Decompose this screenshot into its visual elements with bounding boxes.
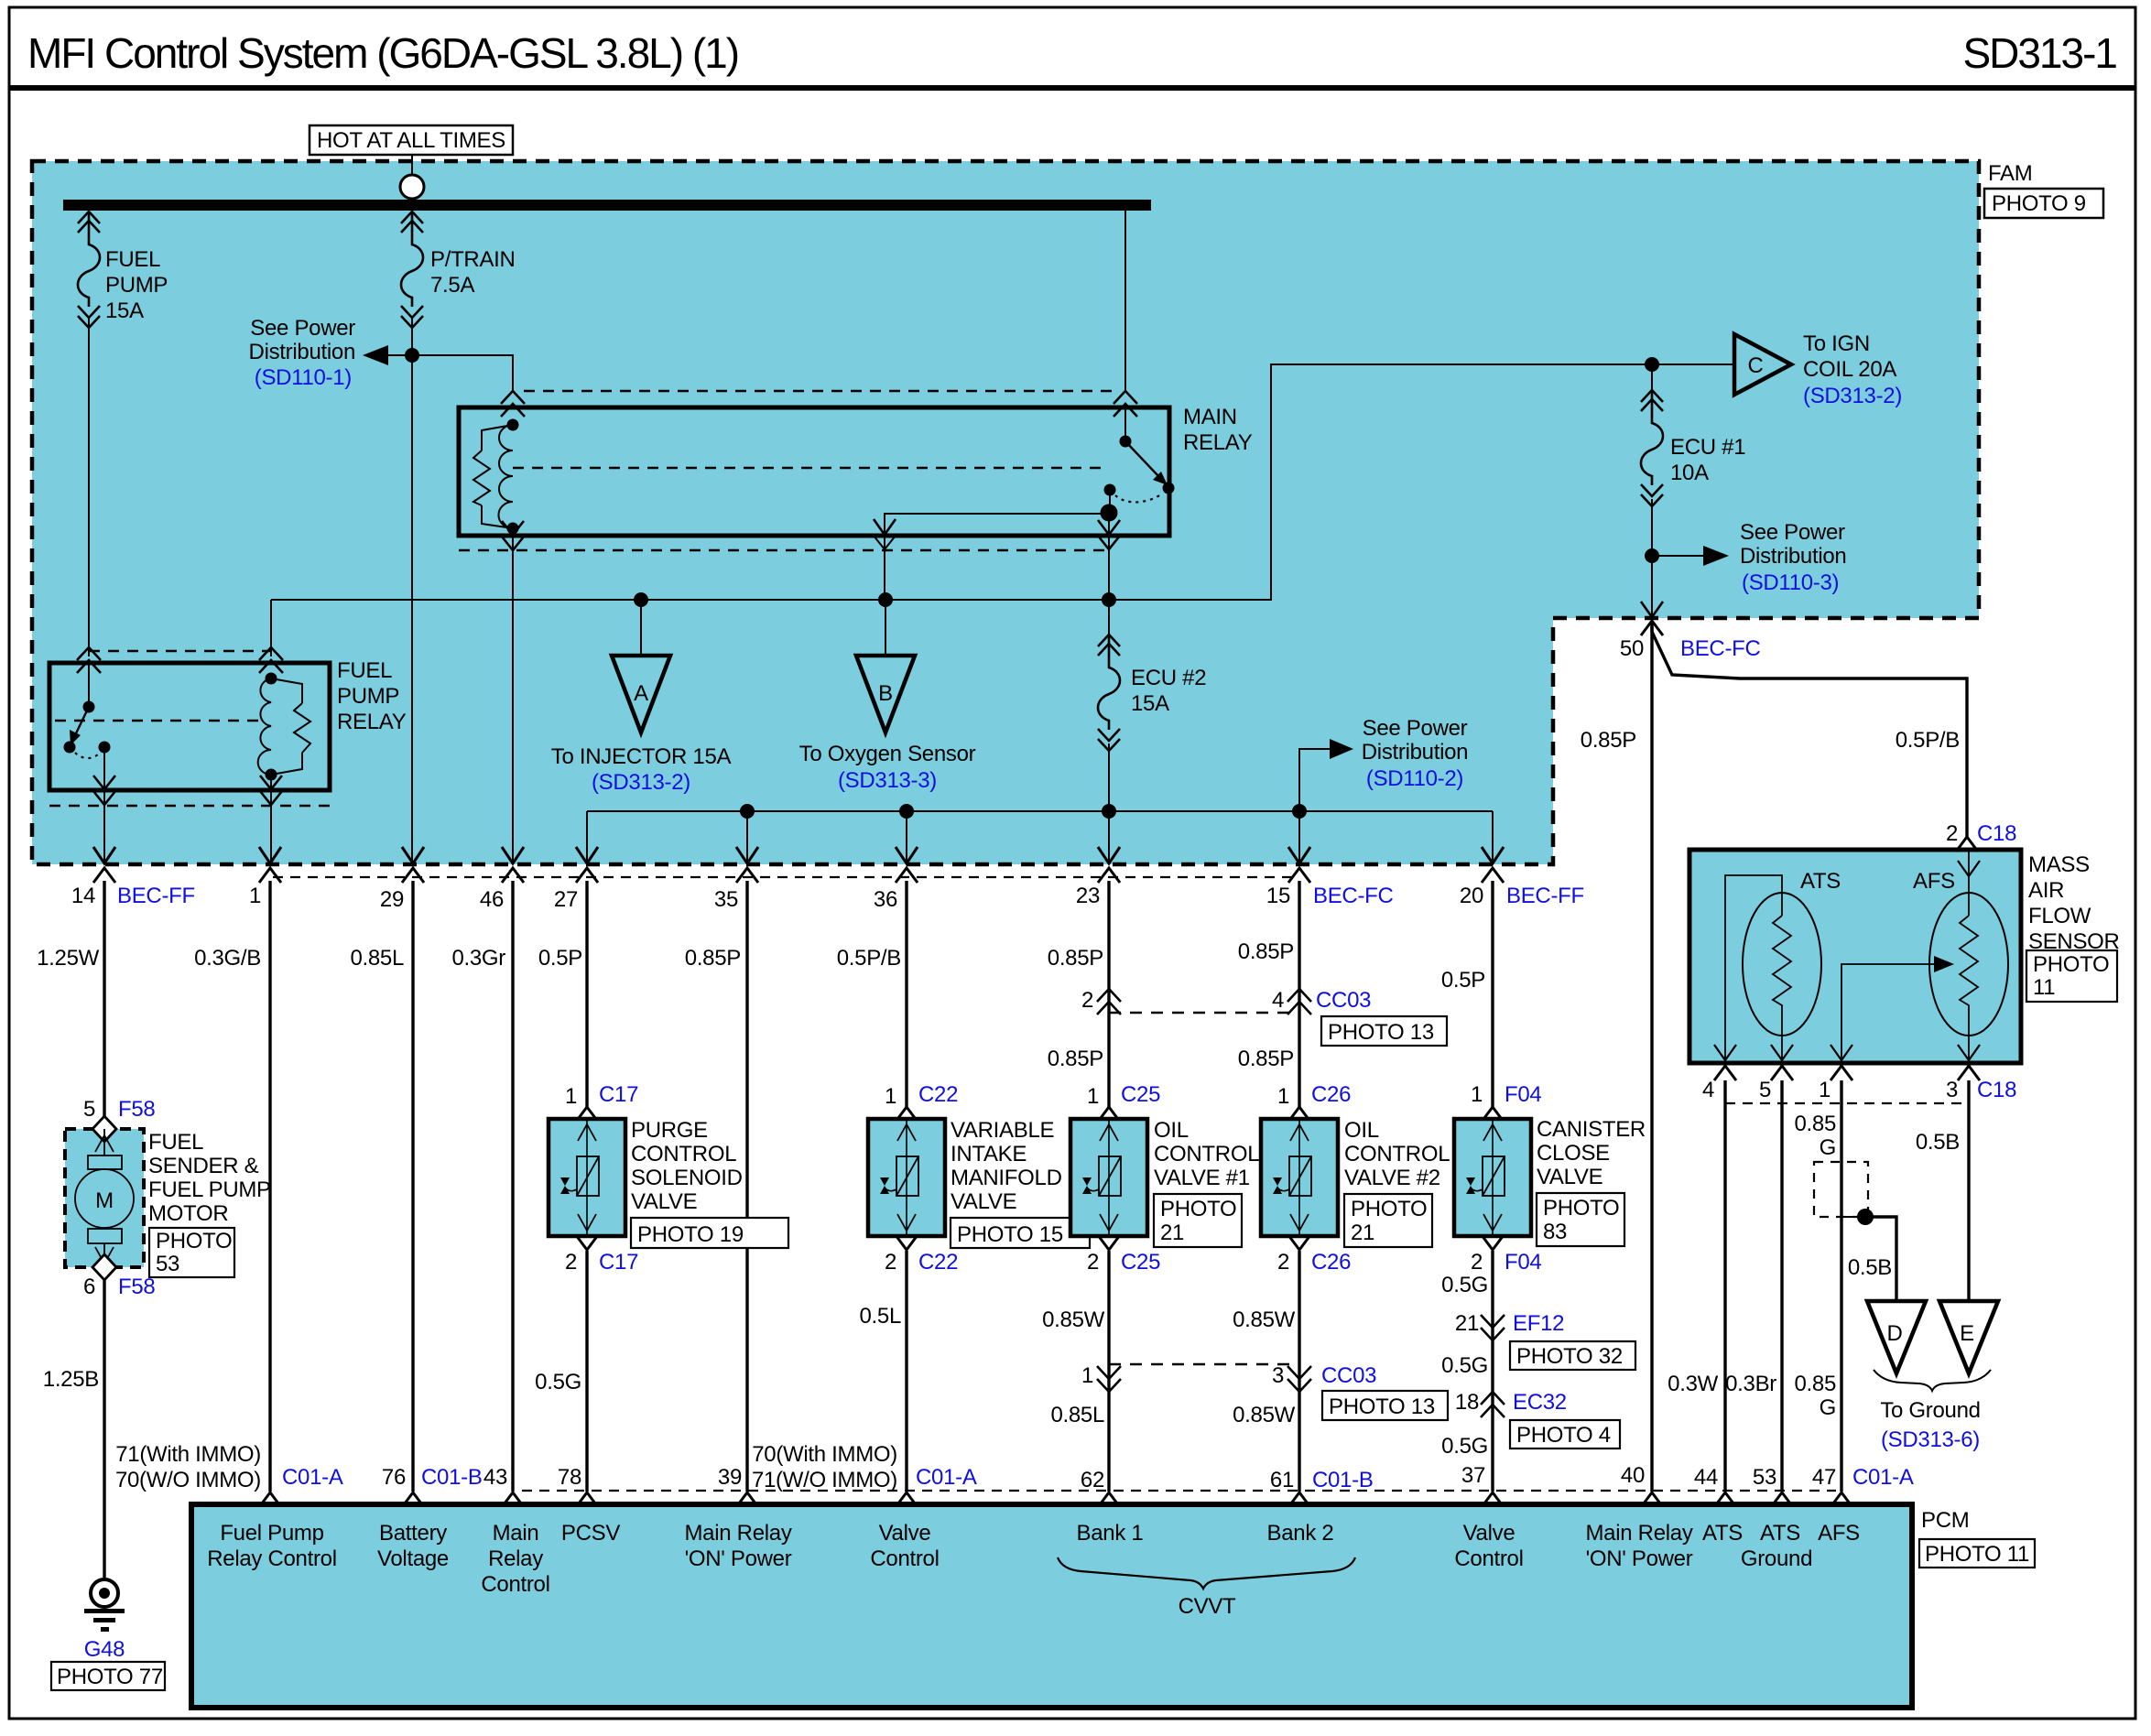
svg-text:PHOTO: PHOTO (2033, 952, 2109, 977)
svg-text:47: 47 (1812, 1465, 1836, 1490)
svg-text:0.5L: 0.5L (859, 1304, 901, 1329)
wire splice to D triangle (1841, 1216, 1865, 1218)
svg-text:11: 11 (2033, 975, 2055, 1000)
svg-text:'ON' Power: 'ON' Power (1586, 1546, 1693, 1571)
svg-text:50: 50 (1620, 636, 1644, 661)
svg-text:PHOTO: PHOTO (1160, 1197, 1236, 1221)
svg-text:MFI Control System (G6DA-GSL 3: MFI Control System (G6DA-GSL 3.8L) (1) (27, 29, 738, 77)
MAF bottom connector tents (1714, 1066, 1736, 1080)
svg-text:CVVT: CVVT (1179, 1594, 1236, 1619)
svg-text:2: 2 (1946, 821, 1958, 846)
svg-text:PHOTO: PHOTO (156, 1229, 232, 1253)
wire from node to main relay coil (412, 355, 513, 391)
svg-text:Bank 1: Bank 1 (1077, 1521, 1144, 1546)
fuel sender connector diamond bottom (92, 1254, 116, 1280)
svg-text:0.3Gr: 0.3Gr (451, 946, 505, 971)
svg-text:53: 53 (156, 1252, 179, 1276)
svg-text:0.85W: 0.85W (1233, 1403, 1296, 1427)
vertical wire 20 to canister valve (1491, 881, 1494, 1107)
svg-text:C01-A: C01-A (916, 1465, 977, 1490)
PCM box (191, 1504, 1912, 1708)
svg-text:62: 62 (1081, 1468, 1104, 1492)
wire distribution at y=886 (587, 810, 1493, 812)
svg-text:CC03: CC03 (1316, 988, 1371, 1013)
svg-text:14: 14 (71, 884, 95, 908)
svg-text:F58: F58 (118, 1097, 155, 1122)
svg-text:CANISTER: CANISTER (1537, 1117, 1646, 1142)
PCM pin tents (259, 1492, 281, 1507)
svg-text:0.85: 0.85 (1794, 1372, 1836, 1396)
svg-text:C26: C26 (1311, 1082, 1351, 1107)
svg-text:PHOTO 19: PHOTO 19 (637, 1222, 744, 1247)
svg-text:37: 37 (1461, 1463, 1485, 1488)
svg-text:40: 40 (1621, 1463, 1645, 1488)
svg-text:0.85: 0.85 (1794, 1112, 1836, 1136)
svg-text:PUMP: PUMP (337, 684, 399, 709)
svg-text:C25: C25 (1121, 1250, 1160, 1275)
svg-text:C26: C26 (1311, 1250, 1351, 1275)
svg-text:0.85L: 0.85L (350, 946, 404, 971)
svg-text:27: 27 (554, 887, 578, 912)
svg-text:0.85W: 0.85W (1042, 1307, 1105, 1332)
fuse ECU#2 15A (1108, 600, 1110, 811)
svg-text:0.85P: 0.85P (1048, 1047, 1103, 1071)
svg-text:C01-A: C01-A (282, 1465, 343, 1490)
wire fuel pump fuse drop (88, 211, 90, 656)
wire PCSV to PCM 78 (585, 1251, 588, 1492)
svg-text:A: A (634, 681, 648, 706)
fp relay dashed linkage inside (55, 720, 266, 722)
svg-text:Main Relay: Main Relay (1585, 1521, 1692, 1546)
svg-text:D: D (1886, 1321, 1902, 1346)
svg-text:21: 21 (1455, 1311, 1479, 1336)
wire p/train fuse drop (411, 211, 413, 864)
node on bus (white circle) (400, 175, 424, 199)
svg-text:4: 4 (1272, 988, 1284, 1013)
svg-text:78: 78 (558, 1465, 581, 1490)
MAF output wires (1723, 1080, 1726, 1492)
svg-text:18: 18 (1455, 1390, 1479, 1415)
fuse FUEL PUMP 15A (78, 212, 100, 328)
svg-text:Main Relay: Main Relay (684, 1521, 791, 1546)
svg-text:RELAY: RELAY (337, 710, 407, 734)
main relay box (459, 407, 1169, 536)
svg-text:15A: 15A (1131, 691, 1169, 716)
fuel pump relay dashed linkage above (89, 650, 270, 652)
svg-text:0.85P: 0.85P (1581, 728, 1636, 753)
svg-text:M: M (95, 1188, 114, 1213)
svg-text:MOTOR: MOTOR (148, 1201, 228, 1226)
svg-text:COIL 20A: COIL 20A (1803, 357, 1896, 382)
svg-text:1: 1 (885, 1084, 896, 1109)
exit drops to boundary (587, 811, 1493, 864)
svg-text:0.85P: 0.85P (685, 946, 741, 971)
svg-text:C18: C18 (1977, 821, 2016, 846)
wire from label to bus (411, 155, 413, 177)
svg-text:(SD313-6): (SD313-6) (1881, 1427, 1980, 1452)
dashed splice box (1814, 1162, 1868, 1217)
svg-text:VALVE: VALVE (631, 1189, 697, 1214)
svg-text:To INJECTOR 15A: To INJECTOR 15A (551, 744, 732, 769)
svg-text:Relay: Relay (488, 1546, 543, 1571)
svg-text:2: 2 (885, 1250, 896, 1275)
svg-text:PHOTO: PHOTO (1351, 1197, 1427, 1221)
svg-text:See Power: See Power (250, 316, 355, 341)
svg-text:See Power: See Power (1363, 716, 1468, 741)
battery bus bar (63, 200, 1151, 211)
fp relay coil (266, 673, 277, 685)
svg-text:1: 1 (1277, 1084, 1289, 1109)
svg-text:PCM: PCM (1921, 1508, 1969, 1533)
svg-text:2: 2 (1471, 1250, 1483, 1275)
motor M (75, 1169, 134, 1228)
node SD110-3 (1645, 548, 1659, 563)
svg-text:2: 2 (565, 1250, 577, 1275)
main relay resistor (482, 425, 513, 528)
pin 2 C25 label (1098, 1235, 1120, 1250)
triangle C to IGN coil (1652, 363, 1734, 365)
svg-text:1.25B: 1.25B (43, 1367, 99, 1392)
svg-text:C22: C22 (918, 1250, 958, 1275)
svg-text:7.5A: 7.5A (430, 273, 474, 298)
svg-text:23: 23 (1076, 884, 1100, 908)
main relay coil (507, 419, 519, 431)
svg-text:ECU #1: ECU #1 (1670, 435, 1745, 460)
svg-text:C01-B: C01-B (421, 1465, 483, 1490)
svg-text:FLOW: FLOW (2028, 904, 2091, 928)
svg-text:PHOTO 15: PHOTO 15 (957, 1222, 1063, 1247)
main relay switch (1114, 391, 1137, 417)
wire to B triangle (885, 600, 886, 656)
svg-text:0.5G: 0.5G (535, 1370, 581, 1394)
pin 2 C18 label (1956, 837, 1978, 852)
svg-text:ATS: ATS (1702, 1521, 1743, 1546)
svg-text:FAM: FAM (1988, 161, 2032, 186)
svg-text:BEC-FC: BEC-FC (1680, 636, 1761, 661)
svg-text:VALVE: VALVE (1537, 1165, 1602, 1189)
pin 2 C17 label (576, 1235, 598, 1250)
svg-text:21: 21 (1160, 1221, 1184, 1245)
svg-text:Main: Main (493, 1521, 539, 1546)
svg-text:EF12: EF12 (1513, 1311, 1564, 1336)
svg-text:C17: C17 (599, 1250, 638, 1275)
svg-text:VARIABLE: VARIABLE (951, 1118, 1054, 1143)
svg-text:2: 2 (1081, 988, 1093, 1013)
brace under D and E (1874, 1370, 1991, 1391)
variable intake manifold valve (868, 1119, 945, 1236)
svg-text:1: 1 (1471, 1082, 1483, 1107)
svg-text:G48: G48 (84, 1637, 125, 1662)
svg-text:MANIFOLD: MANIFOLD (951, 1166, 1062, 1190)
arrow See Power Distribution SD110-3 (1652, 555, 1703, 557)
svg-text:See Power: See Power (1740, 520, 1845, 545)
svg-text:F58: F58 (118, 1275, 155, 1299)
vertical wire 23 to OCV1 (1107, 881, 1110, 1107)
svg-text:29: 29 (380, 887, 404, 912)
svg-text:C25: C25 (1121, 1082, 1160, 1107)
svg-text:0.5G: 0.5G (1441, 1434, 1488, 1459)
svg-text:CC03: CC03 (1321, 1363, 1376, 1388)
svg-text:Ground: Ground (1741, 1546, 1812, 1571)
svg-text:76: 76 (382, 1465, 406, 1490)
svg-text:OIL: OIL (1154, 1118, 1189, 1143)
svg-text:OIL: OIL (1344, 1118, 1379, 1143)
fp relay coil pin (259, 647, 283, 673)
svg-text:0.5B: 0.5B (1916, 1130, 1960, 1155)
vertical wire 29 to PCM (411, 881, 414, 1492)
fuel sender & fuel pump motor dashed box (65, 1129, 144, 1267)
purge control solenoid valve (549, 1119, 625, 1236)
svg-text:2: 2 (1277, 1250, 1289, 1275)
svg-text:BEC-FF: BEC-FF (117, 884, 195, 908)
connector row chevrons at cyan exit (93, 847, 115, 863)
fp relay coil to pin 1 (270, 775, 272, 864)
junction node SD110-1 (405, 348, 419, 363)
svg-text:Valve: Valve (879, 1521, 931, 1546)
svg-text:(SD110-3): (SD110-3) (1742, 570, 1839, 595)
svg-text:PHOTO 9: PHOTO 9 (1992, 191, 2086, 216)
svg-text:3: 3 (1946, 1078, 1958, 1102)
ground G48 (91, 1579, 118, 1607)
svg-text:ECU #2: ECU #2 (1131, 666, 1206, 690)
main relay pin exits (1108, 513, 1110, 600)
svg-text:36: 36 (874, 887, 897, 912)
main relay switch output node (1109, 490, 1111, 513)
svg-text:PUMP: PUMP (105, 273, 168, 298)
svg-text:(SD313-2): (SD313-2) (592, 770, 690, 795)
svg-text:35: 35 (714, 887, 738, 912)
svg-text:FUEL: FUEL (148, 1130, 203, 1155)
vertical wire 1 to PCM (268, 881, 271, 1492)
svg-text:Control: Control (481, 1572, 549, 1597)
svg-text:1: 1 (249, 884, 261, 908)
svg-text:PHOTO 32: PHOTO 32 (1516, 1344, 1623, 1369)
svg-text:G: G (1820, 1395, 1836, 1420)
mass air flow sensor box (1689, 850, 2021, 1063)
svg-text:70(With IMMO): 70(With IMMO) (752, 1442, 897, 1467)
svg-text:C22: C22 (918, 1082, 958, 1107)
node ECU2 feed (1102, 592, 1116, 607)
svg-text:83: 83 (1543, 1220, 1567, 1244)
svg-text:(SD313-3): (SD313-3) (838, 768, 937, 793)
motor brushes (88, 1156, 122, 1169)
arrow to See Power Distribution SD110-1 (388, 354, 412, 356)
pin 2 C22 label (896, 1235, 918, 1250)
svg-text:53: 53 (1753, 1465, 1776, 1490)
vertical wire 14 to fuel sender (103, 881, 105, 1118)
svg-text:BEC-FF: BEC-FF (1506, 884, 1584, 908)
svg-text:0.3G/B: 0.3G/B (194, 946, 261, 971)
svg-text:PHOTO: PHOTO (1543, 1196, 1619, 1221)
svg-text:21: 21 (1351, 1221, 1374, 1245)
fp relay resistor (271, 678, 302, 775)
node pin35 (740, 804, 755, 819)
svg-text:39: 39 (718, 1465, 742, 1490)
svg-text:SOLENOID: SOLENOID (631, 1166, 743, 1190)
svg-text:VALVE #2: VALVE #2 (1344, 1166, 1440, 1190)
node IGN feed (1645, 357, 1659, 372)
connector CC03 lower jumper (1109, 1363, 1299, 1365)
svg-text:70(W/O IMMO): 70(W/O IMMO) (115, 1468, 261, 1492)
svg-text:1: 1 (1819, 1078, 1831, 1102)
arrow See Power Distribution SD110-2 (1299, 749, 1335, 811)
svg-text:44: 44 (1694, 1465, 1718, 1490)
svg-text:F04: F04 (1505, 1082, 1541, 1107)
svg-text:Control: Control (870, 1546, 939, 1571)
svg-text:E: E (1960, 1321, 1974, 1346)
fuse P/TRAIN 7.5A (401, 212, 423, 328)
svg-text:EC32: EC32 (1513, 1390, 1567, 1415)
svg-text:1: 1 (1087, 1084, 1099, 1109)
wire 0.85P down to PCM 40 (1650, 623, 1653, 1492)
pin 2 C26 label (1288, 1235, 1310, 1250)
connector dashed boundary below exit row (273, 876, 1297, 878)
triangle A to injector (612, 656, 670, 732)
svg-text:0.85W: 0.85W (1233, 1307, 1296, 1332)
wire motor to ground (103, 1280, 105, 1578)
vertical wire 36 to intake valve (905, 881, 907, 1107)
svg-text:'ON' Power: 'ON' Power (685, 1546, 792, 1571)
wire bus end to main relay switch (1124, 211, 1126, 391)
splice node (1857, 1209, 1874, 1225)
dashed linkage above main relay (524, 390, 1114, 392)
svg-text:1.25W: 1.25W (37, 946, 100, 971)
svg-text:5: 5 (1759, 1078, 1771, 1102)
fuse ECU#1 10A (1651, 364, 1653, 618)
svg-text:0.85P: 0.85P (1048, 946, 1103, 971)
connector EC32 (1481, 1392, 1505, 1417)
svg-text:BEC-FC: BEC-FC (1313, 884, 1394, 908)
wire to A triangle (640, 600, 642, 656)
svg-text:0.3Br: 0.3Br (1725, 1372, 1776, 1396)
node pin36 (899, 804, 914, 819)
svg-text:ATS: ATS (1760, 1521, 1800, 1546)
svg-text:FUEL PUMP: FUEL PUMP (148, 1177, 271, 1202)
svg-text:(SD110-1): (SD110-1) (255, 365, 352, 390)
fp relay switch pin (77, 647, 101, 673)
dashed linkage below main relay (459, 549, 1104, 551)
svg-text:CONTROL: CONTROL (631, 1142, 736, 1166)
svg-text:VALVE #1: VALVE #1 (1154, 1166, 1250, 1190)
node A feed (634, 592, 648, 607)
svg-text:To Oxygen Sensor: To Oxygen Sensor (799, 742, 976, 766)
wire canister valve to PCM 37 (1491, 1251, 1494, 1492)
svg-text:15: 15 (1266, 884, 1290, 908)
svg-text:(SD313-2): (SD313-2) (1803, 384, 1902, 408)
wire BEC-FC 50 to MAF pin2 (1652, 623, 1967, 839)
cyan power-distribution region (32, 161, 1979, 864)
svg-text:SD313-1: SD313-1 (1962, 29, 2116, 77)
vertical wire 35 to PCM (745, 881, 748, 1492)
svg-text:0.5P/B: 0.5P/B (837, 946, 901, 971)
svg-text:PHOTO 13: PHOTO 13 (1329, 1394, 1435, 1419)
svg-text:43: 43 (483, 1465, 507, 1490)
svg-text:0.85L: 0.85L (1050, 1403, 1104, 1427)
wire fp relay coil feed from y=655 (270, 600, 272, 656)
svg-text:6: 6 (83, 1275, 95, 1299)
triangle E (1939, 1301, 1998, 1373)
svg-text:MASS: MASS (2028, 852, 2090, 877)
svg-text:Distribution: Distribution (1740, 544, 1846, 569)
svg-text:0.5G: 0.5G (1441, 1273, 1488, 1297)
svg-text:HOT AT ALL TIMES: HOT AT ALL TIMES (317, 128, 505, 153)
svg-text:1: 1 (1081, 1363, 1093, 1388)
svg-text:46: 46 (480, 887, 504, 912)
vertical wire 46 to PCM (511, 881, 514, 1492)
fp relay dashed linkage below (49, 805, 330, 807)
svg-text:Relay Control: Relay Control (207, 1546, 337, 1571)
svg-text:61: 61 (1270, 1468, 1294, 1492)
oil control valve 1 (1070, 1119, 1147, 1236)
svg-text:5: 5 (83, 1097, 95, 1122)
svg-text:FUEL: FUEL (337, 658, 392, 683)
svg-text:C18: C18 (1977, 1078, 2016, 1102)
svg-text:C17: C17 (599, 1082, 638, 1107)
node B feed (878, 592, 893, 607)
svg-text:3: 3 (1272, 1363, 1284, 1388)
svg-text:0.5P: 0.5P (1441, 968, 1485, 993)
svg-text:0.85P: 0.85P (1238, 1047, 1294, 1071)
triangle D (1867, 1301, 1926, 1373)
svg-text:15A: 15A (105, 298, 144, 323)
svg-text:Voltage: Voltage (377, 1546, 449, 1571)
oil control valve 2 (1261, 1119, 1338, 1236)
svg-text:Distribution: Distribution (1362, 740, 1468, 765)
svg-text:CLOSE: CLOSE (1537, 1141, 1610, 1166)
svg-text:AFS: AFS (1818, 1521, 1860, 1546)
svg-text:71(With IMMO): 71(With IMMO) (115, 1442, 261, 1467)
svg-text:20: 20 (1460, 884, 1483, 908)
svg-text:Valve: Valve (1463, 1521, 1515, 1546)
svg-text:SENDER &: SENDER & (148, 1154, 259, 1178)
svg-text:PHOTO 77: PHOTO 77 (57, 1665, 163, 1689)
svg-text:0.5G: 0.5G (1441, 1353, 1488, 1378)
wire valve control to PCM (905, 1251, 907, 1492)
svg-text:Distribution: Distribution (249, 340, 355, 364)
svg-text:VALVE: VALVE (951, 1189, 1016, 1214)
svg-text:F04: F04 (1505, 1250, 1541, 1275)
HOT AT ALL TIMES label box (310, 125, 513, 155)
svg-text:P/TRAIN: P/TRAIN (430, 247, 516, 272)
svg-text:G: G (1820, 1135, 1836, 1160)
node pin23 (1102, 804, 1116, 819)
node pin15 (1292, 804, 1307, 819)
svg-text:(SD110-2): (SD110-2) (1366, 766, 1463, 791)
svg-text:0.5B: 0.5B (1848, 1255, 1892, 1280)
svg-text:CONTROL: CONTROL (1154, 1142, 1259, 1166)
svg-text:CONTROL: CONTROL (1344, 1142, 1450, 1166)
svg-text:To IGN: To IGN (1803, 331, 1870, 356)
svg-text:4: 4 (1702, 1078, 1714, 1102)
fuel sender connector diamond top (92, 1116, 116, 1142)
connector CC03 upper jumper (1097, 989, 1121, 1014)
svg-text:AFS: AFS (1913, 869, 1955, 894)
svg-text:RELAY: RELAY (1183, 430, 1253, 455)
vertical wire 27 to PCSV (585, 881, 588, 1107)
svg-text:PHOTO 4: PHOTO 4 (1516, 1423, 1611, 1448)
svg-text:0.85P: 0.85P (1238, 939, 1294, 964)
fp relay switch output to pin 14 (103, 747, 105, 864)
pin 2 F04 label (1482, 1235, 1504, 1250)
svg-text:FUEL: FUEL (105, 247, 160, 272)
wire main distribution at y=655 (271, 364, 1734, 600)
svg-text:AIR: AIR (2028, 878, 2064, 903)
main relay dashed linkage inside (513, 467, 1103, 469)
svg-text:0.3W: 0.3W (1668, 1372, 1718, 1396)
internal wire to second output (885, 514, 1109, 536)
wire bank1 to PCM 62 (1107, 1251, 1110, 1492)
triangle B to oxygen sensor (856, 656, 915, 732)
